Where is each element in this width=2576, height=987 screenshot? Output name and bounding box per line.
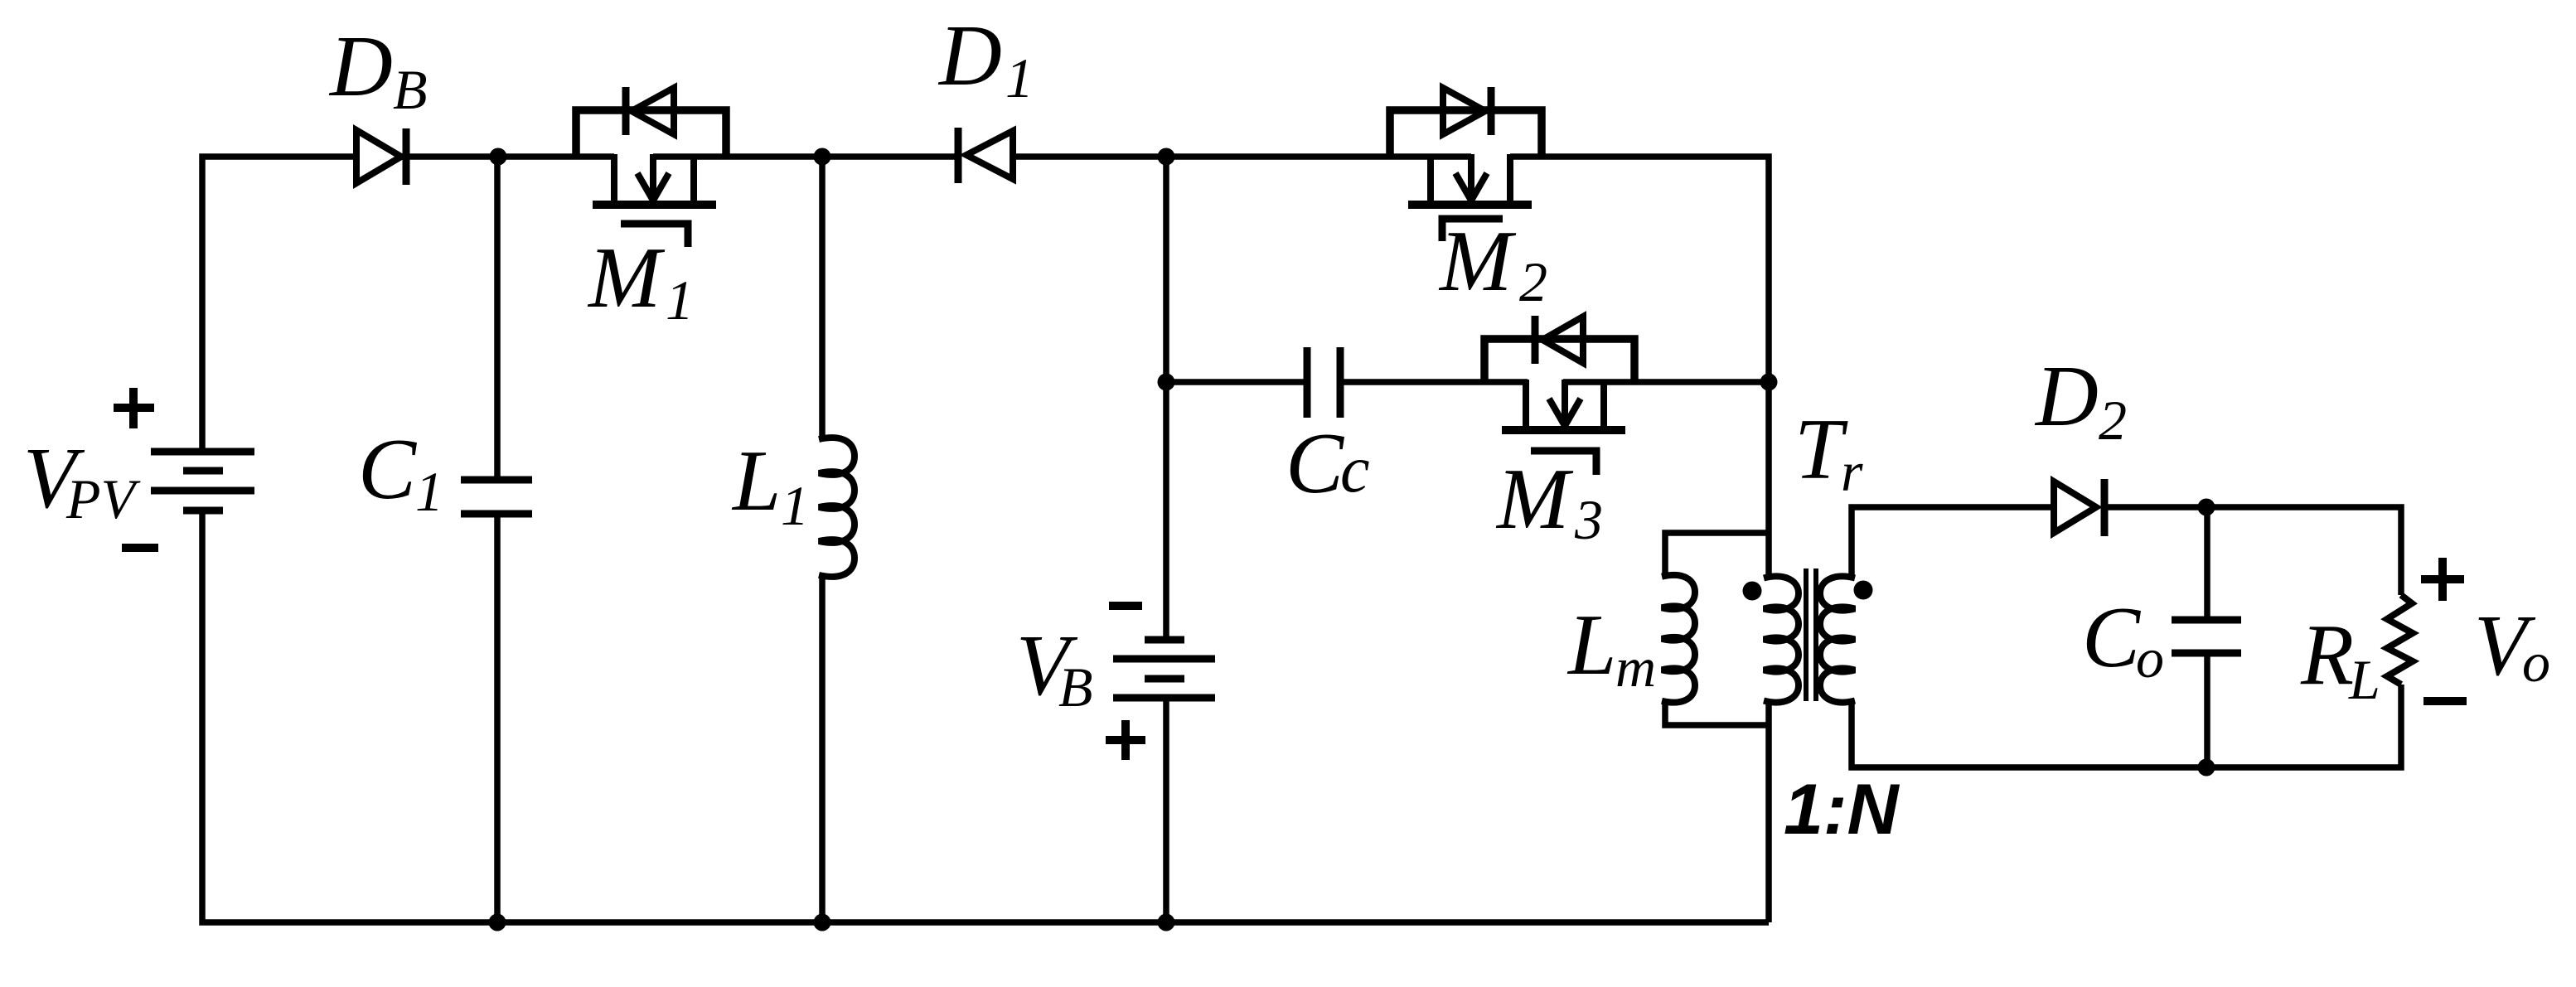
svg-text:L: L: [731, 432, 781, 529]
svg-text:M: M: [1495, 450, 1574, 547]
svg-text:1: 1: [666, 269, 694, 331]
svg-text:1: 1: [781, 474, 809, 537]
svg-text:B: B: [393, 58, 428, 121]
svg-text:o: o: [2136, 627, 2164, 689]
svg-text:M: M: [587, 229, 666, 326]
svg-text:D: D: [2034, 347, 2099, 444]
svg-text:D: D: [937, 7, 1002, 104]
svg-text:1: 1: [1005, 46, 1034, 109]
svg-text:L: L: [2348, 648, 2380, 711]
svg-text:C: C: [2082, 588, 2142, 685]
svg-text:1:N: 1:N: [1784, 770, 1900, 849]
svg-text:L: L: [1566, 596, 1616, 693]
svg-text:r: r: [1841, 440, 1863, 503]
svg-text:c: c: [1340, 433, 1370, 506]
svg-text:C: C: [358, 420, 418, 517]
svg-text:1: 1: [415, 460, 443, 523]
svg-text:o: o: [2522, 631, 2550, 694]
svg-text:R: R: [2300, 606, 2354, 703]
svg-text:D: D: [328, 17, 393, 114]
svg-text:m: m: [1615, 636, 1656, 699]
svg-text:2: 2: [1519, 250, 1547, 313]
svg-text:B: B: [1058, 656, 1093, 718]
svg-text:M: M: [1438, 212, 1517, 309]
svg-text:C: C: [1286, 414, 1345, 511]
svg-text:3: 3: [1574, 488, 1603, 551]
svg-text:2: 2: [2099, 389, 2127, 452]
svg-text:PV: PV: [65, 467, 142, 530]
